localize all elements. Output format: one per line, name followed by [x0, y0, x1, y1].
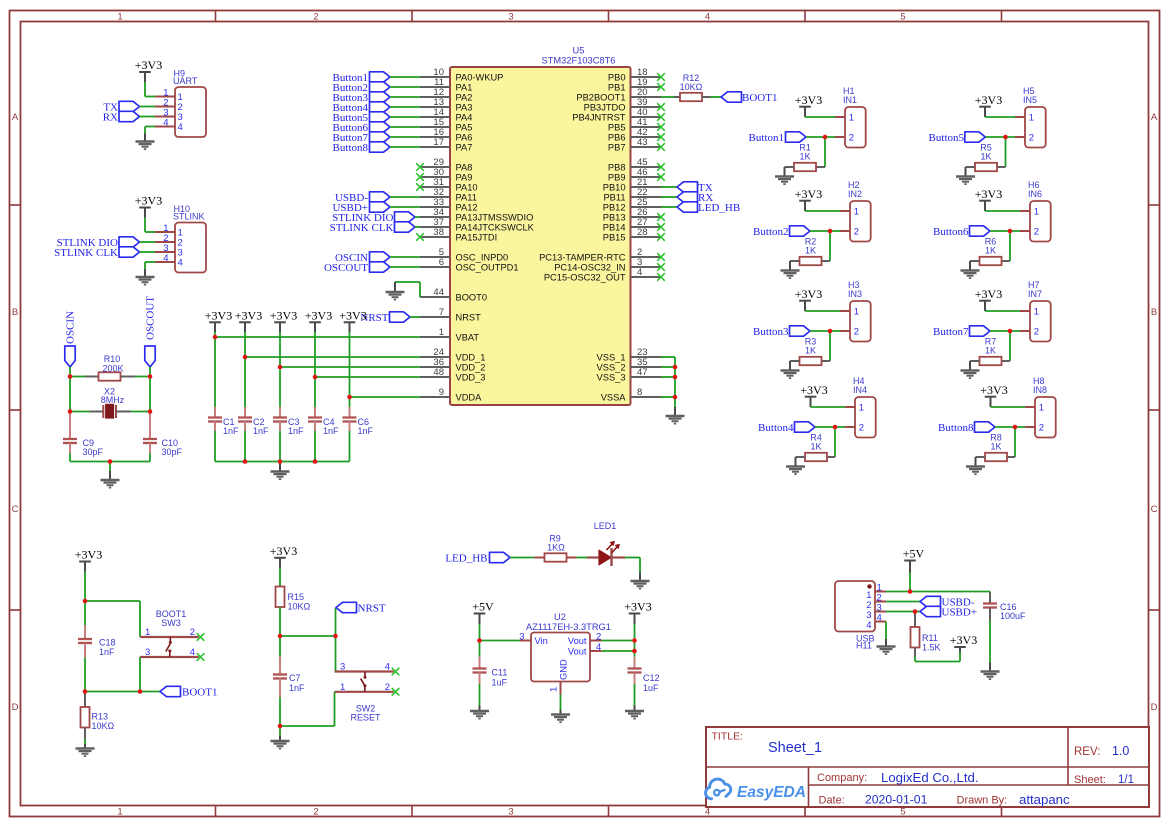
net flag LED_HB (at U5)	[677, 202, 740, 214]
capacitor C10	[143, 412, 157, 462]
junction dot H6 pin2	[1008, 229, 1013, 234]
wire OSCOUT down to node	[149, 367, 151, 377]
wire Button6 to H6 pin2	[990, 230, 1020, 232]
svg-text:2: 2	[313, 807, 318, 818]
ground at C16	[981, 663, 1000, 680]
junction dot C1 column	[213, 335, 218, 340]
svg-text:PC14-OSC32_IN: PC14-OSC32_IN	[554, 262, 625, 272]
svg-text:+3V3: +3V3	[795, 287, 822, 301]
connector H9 body	[155, 87, 206, 137]
ground at R6	[961, 271, 980, 279]
power +3V3 (H4)	[800, 383, 827, 407]
resistor R10	[70, 372, 150, 380]
svg-text:Button1: Button1	[749, 132, 784, 144]
svg-text:10KΩ: 10KΩ	[680, 82, 703, 92]
svg-text:1uF: 1uF	[643, 683, 659, 693]
svg-text:1K: 1K	[980, 152, 991, 162]
svg-text:STLINK: STLINK	[173, 211, 205, 221]
wire R9 to LED1	[577, 557, 588, 559]
svg-text:R11: R11	[922, 633, 938, 643]
svg-text:1nF: 1nF	[358, 426, 374, 436]
svg-text:PB3JTDO: PB3JTDO	[584, 102, 626, 112]
U5 pin 37 PA14JTCKSWCLK (left)	[420, 217, 535, 233]
svg-text:Drawn By:: Drawn By:	[957, 795, 1008, 807]
svg-text:7: 7	[439, 307, 444, 318]
net flag NRST (at SW2)	[336, 602, 386, 614]
svg-text:C11: C11	[492, 668, 508, 678]
U5 pin 48 VDD_3 (left)	[420, 367, 485, 383]
svg-text:PB2BOOT1: PB2BOOT1	[576, 92, 625, 102]
net flag TX (at H9)	[103, 101, 139, 113]
svg-text:2: 2	[859, 423, 864, 434]
wire H11 pin2 to USBD- flag	[886, 601, 920, 603]
svg-text:1.5K: 1.5K	[922, 643, 941, 653]
svg-text:PA4: PA4	[456, 112, 473, 122]
wire Button2 to H2 pin2	[810, 230, 840, 232]
net flag Button2	[753, 226, 810, 238]
wire NRST to U5 pin7	[410, 316, 420, 318]
ground at R13	[76, 744, 95, 756]
junction dot H5 pin2	[1003, 135, 1008, 140]
svg-text:4: 4	[596, 642, 601, 653]
svg-text:PC13-TAMPER-RTC: PC13-TAMPER-RTC	[539, 252, 626, 262]
ground at crystal rail	[101, 471, 120, 488]
svg-text:+3V3: +3V3	[305, 309, 332, 323]
svg-text:Button8: Button8	[938, 422, 974, 434]
svg-text:1: 1	[1034, 307, 1039, 318]
resistor R8	[976, 453, 1016, 461]
U5 pin 22 PB11 (right)	[603, 187, 661, 203]
svg-text:PA7: PA7	[456, 142, 473, 152]
svg-text:PA8: PA8	[456, 162, 473, 172]
junction dot R15-C7	[278, 634, 283, 639]
svg-text:attapanc: attapanc	[1019, 792, 1070, 807]
svg-text:PB9: PB9	[608, 172, 626, 182]
junction dot VSSA	[673, 395, 678, 400]
U5 pin 28 PB15 (right)	[603, 227, 665, 243]
ground at C12	[625, 706, 644, 719]
svg-text:4: 4	[877, 612, 882, 623]
resistor R7	[970, 357, 1010, 365]
svg-text:PA11: PA11	[456, 192, 477, 202]
capacitor C6	[343, 407, 357, 462]
svg-text:IN1: IN1	[843, 95, 857, 105]
IC U5 STM32F103C8T6 body	[450, 67, 631, 405]
wire Button4 to H4 pin2	[815, 426, 845, 428]
junction dot VSS_2	[673, 365, 678, 370]
svg-text:AZ1117EH-3.3TRG1: AZ1117EH-3.3TRG1	[526, 622, 611, 632]
svg-text:IN2: IN2	[848, 189, 862, 199]
svg-text:2: 2	[1034, 227, 1039, 238]
wire H3 pin2 down to R3	[829, 331, 831, 361]
resistor R1	[785, 163, 826, 171]
net flag Button7	[933, 326, 990, 338]
svg-text:+3V3: +3V3	[800, 383, 827, 397]
svg-text:4: 4	[190, 647, 195, 658]
wire H11 pin3 to USBD+ flag	[886, 611, 920, 613]
wire SW2 pin1 down to ground row	[280, 692, 335, 726]
frame row letters left	[12, 112, 19, 713]
wire USBD- to U5 pin32	[390, 196, 420, 198]
svg-text:1: 1	[549, 687, 560, 692]
svg-text:1K: 1K	[985, 246, 996, 256]
net flag Button7	[333, 132, 390, 144]
U5 pin 47 VSS_3 (right)	[597, 367, 661, 383]
power +3V3 (H1)	[795, 93, 822, 117]
svg-text:NRST: NRST	[456, 312, 482, 322]
net flag TX (at U5)	[677, 182, 713, 194]
wire +3V3 to H6 pin1	[985, 210, 1020, 212]
svg-text:1: 1	[439, 327, 444, 338]
net flag USBD- (at H11)	[920, 596, 975, 608]
wire OSCIN down to node	[69, 367, 71, 377]
svg-text:1KΩ: 1KΩ	[547, 543, 565, 553]
wire Button8 to U5	[390, 146, 420, 148]
wire +3V3 to H5 pin1	[985, 116, 1015, 118]
junction dot H2 pin2	[828, 229, 833, 234]
wire +5V to U2 Vin	[480, 624, 521, 641]
U5 pin 20 PB2BOOT1 (right)	[576, 87, 661, 103]
ground at R3	[781, 371, 800, 379]
no-connect SW3 pin2	[197, 633, 205, 641]
svg-text:+3V3: +3V3	[235, 309, 262, 323]
junction dot rail C3	[278, 459, 283, 464]
U5 pin 32 PA11 (left)	[420, 187, 477, 203]
svg-text:2: 2	[854, 327, 859, 338]
net flag BOOT1 (at R12)	[721, 92, 777, 104]
svg-text:OSC_OUTPD1: OSC_OUTPD1	[456, 262, 519, 272]
wire +3V3 to H7 pin1	[985, 310, 1020, 312]
svg-text:1/1: 1/1	[1118, 774, 1134, 786]
wire U5 pin20 to R12	[661, 96, 674, 98]
net flag Button8	[333, 142, 390, 154]
wire +3V3 column C6	[349, 332, 351, 407]
svg-text:Button4: Button4	[758, 422, 794, 434]
svg-text:VSS_2: VSS_2	[597, 362, 626, 372]
junction dot C3 column	[278, 365, 283, 370]
ground at decoupling rail	[271, 472, 290, 480]
H11 pin numbers outside	[877, 582, 882, 623]
wire C7 node to ground	[279, 726, 281, 741]
svg-text:+3V3: +3V3	[950, 633, 977, 647]
wire R15 to NRST node	[279, 607, 281, 636]
ground at VSS bus	[666, 407, 685, 424]
svg-text:4: 4	[163, 253, 168, 264]
U5 pin 39 PB3JTDO (right)	[584, 97, 665, 113]
svg-text:Sheet_1: Sheet_1	[768, 740, 822, 756]
svg-text:Button3: Button3	[753, 326, 789, 338]
junction dot Vout pin4	[632, 649, 637, 654]
net flag STLINK DIO (at U5)	[332, 212, 415, 224]
svg-text:C: C	[1151, 504, 1158, 515]
U5 pin 27 PB14 (right)	[603, 217, 665, 233]
wire C2 row to U5	[245, 356, 420, 358]
svg-text:43: 43	[637, 137, 648, 148]
wire Button3 to H3 pin2	[810, 330, 840, 332]
U5 pin 6 OSC_OUTPD1 (left)	[420, 257, 519, 273]
svg-text:IN8: IN8	[1033, 385, 1047, 395]
H10 pin names inside	[178, 228, 183, 269]
junction dot Vout pin2	[632, 638, 637, 643]
svg-text:Button2: Button2	[753, 226, 788, 238]
power +3V3 (C3 column)	[270, 309, 297, 333]
U5 pin 8 VSSA (right)	[601, 387, 661, 403]
ground at R1	[775, 177, 794, 185]
svg-text:5: 5	[900, 807, 905, 818]
wire H6 pin2 down to R6	[1009, 231, 1011, 261]
svg-text:100uF: 100uF	[1000, 611, 1026, 621]
wire RX to H9 pin3	[140, 116, 156, 118]
power +5V (USB)	[903, 547, 925, 573]
svg-text:PB0: PB0	[608, 72, 626, 82]
svg-text:2020-01-01: 2020-01-01	[865, 793, 928, 807]
power +3V3 (H3)	[795, 287, 822, 311]
junction dot C4 column	[313, 375, 318, 380]
svg-text:Date:: Date:	[819, 795, 845, 807]
svg-text:1K: 1K	[985, 346, 996, 356]
net flag Button3	[333, 92, 390, 104]
wire R3 to ground	[789, 361, 791, 371]
svg-text:STLINK CLK: STLINK CLK	[54, 247, 118, 259]
wire R2 to ground	[789, 261, 791, 271]
junction dot OSCOUT-R10	[148, 374, 153, 379]
wire +3V3 to H3 pin1	[805, 310, 840, 312]
resistor R3	[790, 357, 830, 365]
svg-text:LED_HB: LED_HB	[698, 202, 740, 214]
wire LED_HB to R9	[510, 557, 535, 559]
capacitor C2	[238, 407, 252, 462]
svg-text:+3V3: +3V3	[339, 309, 366, 323]
wire Button1 to U5	[390, 76, 420, 78]
U5 pin 23 VSS_1 (right)	[597, 347, 661, 363]
svg-text:3: 3	[508, 12, 513, 23]
junction dot crystal rail	[108, 459, 113, 464]
svg-text:Button7: Button7	[933, 326, 969, 338]
svg-text:PB1: PB1	[608, 82, 626, 92]
wire R1 to ground	[784, 167, 786, 177]
net flag Button4	[758, 422, 815, 434]
net flag USBD+ (at H11)	[920, 606, 977, 618]
U5 pin 11 PA1 (left)	[420, 77, 472, 93]
svg-text:Company:: Company:	[817, 772, 867, 784]
H9 pin names inside	[178, 92, 183, 133]
H9 pin numbers outside	[163, 88, 168, 129]
net flag Button1	[749, 132, 806, 144]
power +3V3 (C2 column)	[235, 309, 262, 333]
wire C3 row to U5	[280, 366, 420, 368]
svg-text:4: 4	[178, 258, 183, 269]
svg-text:PA10: PA10	[456, 182, 478, 192]
power +3V3 (C4 column)	[305, 309, 332, 333]
ground at U2 GND	[551, 710, 570, 723]
svg-text:1: 1	[854, 307, 859, 318]
svg-text:BOOT0: BOOT0	[456, 292, 488, 302]
svg-text:1nF: 1nF	[288, 426, 304, 436]
wire Button3 to U5	[390, 96, 420, 98]
svg-text:4: 4	[866, 620, 871, 631]
wire STLINK DIO to H10 pin2	[140, 241, 156, 243]
svg-text:6: 6	[439, 257, 444, 268]
U5 pin 10 PA0-WKUP (left)	[420, 67, 503, 83]
svg-text:OSC_INPD0: OSC_INPD0	[456, 252, 509, 262]
U5 pin 19 PB1 (right)	[608, 77, 665, 93]
svg-text:VBAT: VBAT	[456, 332, 480, 342]
junction dot X2 right	[148, 409, 153, 414]
U5 pin 38 PA15JTDI (left)	[416, 227, 497, 243]
junction dot OSCIN-R10	[68, 374, 73, 379]
svg-text:PB11: PB11	[603, 192, 625, 202]
switch SW3 contacts	[140, 637, 199, 657]
svg-text:STM32F103C8T6: STM32F103C8T6	[542, 56, 616, 66]
junction dot H7 pin2	[1008, 329, 1013, 334]
wire +3V3 to H8 pin1	[991, 406, 1026, 408]
svg-text:1nF: 1nF	[99, 647, 115, 657]
junction dot C2 column	[243, 355, 248, 360]
svg-text:1: 1	[1029, 113, 1034, 124]
svg-text:2: 2	[849, 133, 854, 144]
svg-text:Button5: Button5	[929, 132, 965, 144]
wire OSCOUT column	[149, 377, 151, 412]
ground at H11	[877, 639, 896, 654]
wire R11 to +3V3	[915, 653, 960, 662]
capacitor C18	[78, 601, 92, 692]
net flag USBD- (at U5)	[335, 192, 390, 204]
wire H10 pin4 to ground	[145, 262, 155, 269]
svg-text:+3V3: +3V3	[75, 548, 102, 562]
svg-text:PB6: PB6	[608, 132, 626, 142]
wire OSCIN column	[69, 377, 71, 412]
svg-text:PB12: PB12	[603, 202, 626, 212]
svg-text:+3V3: +3V3	[795, 187, 822, 201]
U5 pin 29 PA8 (left)	[416, 157, 472, 173]
U5 pin 41 PB5 (right)	[608, 117, 665, 133]
svg-text:Vout: Vout	[568, 636, 587, 646]
svg-text:Sheet:: Sheet:	[1074, 774, 1106, 786]
svg-text:PA14JTCKSWCLK: PA14JTCKSWCLK	[456, 222, 535, 232]
svg-text:NRST: NRST	[358, 603, 386, 615]
wire LED1 to ground	[625, 558, 640, 573]
no-connect SW2 pin2	[392, 688, 400, 696]
net flag Button5	[333, 112, 390, 124]
power +3V3 (H6)	[975, 187, 1002, 211]
wire Button6 to U5	[390, 126, 420, 128]
wire Button4 to U5	[390, 106, 420, 108]
LED LED1	[587, 541, 625, 566]
svg-text:+5V: +5V	[903, 547, 925, 561]
svg-text:5: 5	[900, 12, 905, 23]
switch SW2 contacts	[335, 672, 394, 692]
net flag STLINK CLK (at U5)	[330, 222, 415, 234]
U5 pin 25 PB12 (right)	[603, 197, 661, 213]
svg-text:1nF: 1nF	[223, 426, 239, 436]
IC U2 body	[520, 633, 602, 695]
svg-text:1: 1	[854, 207, 859, 218]
svg-text:1uF: 1uF	[492, 678, 508, 688]
wire H4 pin2 down to R4	[834, 427, 836, 457]
frame column ticks bottom	[216, 806, 1002, 817]
svg-text:4: 4	[705, 807, 710, 818]
svg-text:1: 1	[1039, 403, 1044, 414]
ground at R8	[966, 467, 985, 475]
svg-text:10KΩ: 10KΩ	[288, 602, 311, 612]
svg-text:PB13: PB13	[603, 212, 626, 222]
svg-text:4: 4	[637, 267, 642, 278]
ground at R5	[956, 177, 975, 185]
net flag STLINK CLK (at H10)	[54, 247, 139, 259]
wire +3V3 to H1 pin1	[805, 116, 835, 118]
junction dot rail C2	[243, 459, 248, 464]
svg-text:PA12: PA12	[456, 202, 478, 212]
svg-text:1K: 1K	[805, 246, 816, 256]
svg-text:4: 4	[178, 122, 183, 133]
svg-text:PA15JTDI: PA15JTDI	[456, 232, 498, 242]
wire R8 to ground	[975, 457, 977, 467]
svg-text:BOOT1: BOOT1	[182, 687, 217, 699]
frame column numbers top	[117, 12, 905, 23]
ground at H9	[136, 134, 155, 150]
svg-text:+3V3: +3V3	[975, 287, 1002, 301]
net flag Button1	[333, 72, 390, 84]
svg-text:VDD_2: VDD_2	[456, 362, 486, 372]
svg-text:8MHz: 8MHz	[101, 395, 125, 405]
svg-text:3: 3	[340, 662, 345, 673]
svg-text:RX: RX	[103, 112, 118, 124]
U5 pin 42 PB6 (right)	[608, 127, 665, 143]
U5 pin 17 PA7 (left)	[420, 137, 472, 153]
svg-text:+3V3: +3V3	[135, 58, 162, 72]
net flag NRST (at U5)	[360, 312, 410, 324]
svg-text:OSCOUT: OSCOUT	[145, 296, 157, 340]
capacitor C11	[473, 641, 487, 706]
net flag BOOT1 (at SW3)	[160, 686, 217, 698]
wire R7 to ground	[969, 361, 971, 371]
wire C1 row to U5	[215, 336, 420, 338]
svg-text:LogixEd Co.,Ltd.: LogixEd Co.,Ltd.	[881, 770, 979, 785]
svg-text:BOOT1: BOOT1	[742, 92, 777, 104]
wire rail to ground	[279, 462, 281, 472]
svg-text:2: 2	[854, 227, 859, 238]
resistor R6	[970, 257, 1010, 265]
wire +3V3 column C1	[214, 332, 216, 407]
wire H1 pin2 down to R1	[824, 137, 826, 167]
svg-text:PC15-OSC32_OUT: PC15-OSC32_OUT	[544, 272, 626, 282]
wire Button5 to U5	[390, 116, 420, 118]
wire +3V3 to H4 pin1	[811, 406, 846, 408]
wire +3V3 column C3	[279, 332, 281, 407]
junction dot X2 left	[68, 409, 73, 414]
svg-text:+3V3: +3V3	[205, 309, 232, 323]
svg-text:1: 1	[1034, 207, 1039, 218]
svg-text:A: A	[1151, 112, 1158, 123]
svg-text:+3V3: +3V3	[135, 194, 162, 208]
U5 pin 24 VDD_1 (left)	[420, 347, 485, 363]
svg-text:VSS_3: VSS_3	[597, 372, 626, 382]
junction dot +5V USB	[908, 589, 913, 594]
net flag Button6	[933, 226, 990, 238]
U5 pin 16 PA6 (left)	[420, 127, 472, 143]
wire STLINK DIO to U5 pin34	[415, 216, 420, 218]
wire decoupling ground rail	[215, 461, 350, 463]
svg-text:TITLE:: TITLE:	[712, 731, 744, 743]
svg-text:PA9: PA9	[456, 172, 473, 182]
svg-text:+3V3: +3V3	[270, 309, 297, 323]
svg-text:PB8: PB8	[608, 162, 626, 172]
svg-text:3: 3	[508, 807, 513, 818]
ground at SW2 block	[271, 736, 290, 749]
net flag RX (at H9)	[103, 111, 140, 123]
svg-text:VSS_1: VSS_1	[597, 352, 626, 362]
wire U5 BOOT0 to ground	[395, 282, 420, 297]
